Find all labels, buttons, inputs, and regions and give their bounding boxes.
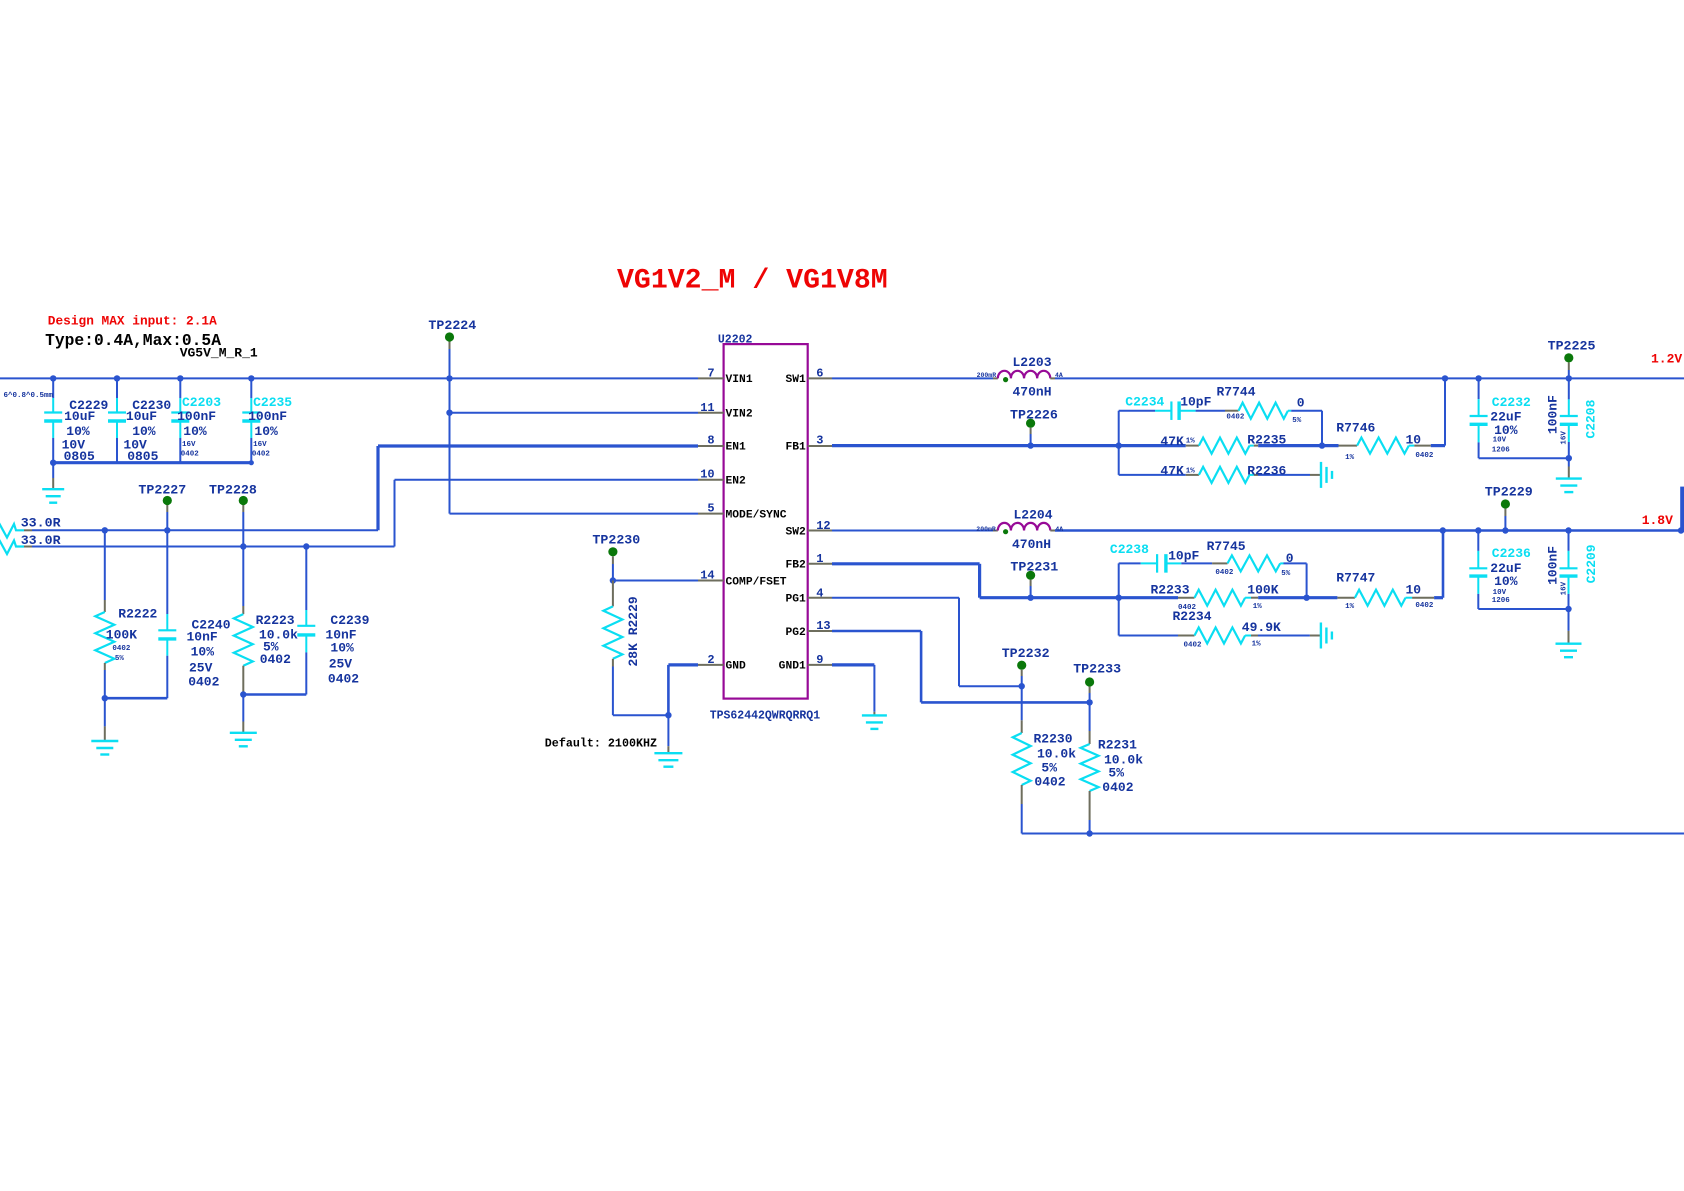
svg-text:10.0k: 10.0k	[1037, 746, 1076, 761]
svg-text:R7745: R7745	[1207, 539, 1246, 554]
svg-text:R2231: R2231	[1098, 738, 1137, 753]
svg-text:TP2229: TP2229	[1485, 485, 1533, 500]
svg-text:1%: 1%	[1186, 438, 1196, 446]
svg-text:16V: 16V	[1561, 431, 1569, 445]
svg-text:100nF: 100nF	[1546, 395, 1561, 434]
svg-text:C2232: C2232	[1492, 395, 1531, 410]
svg-text:TP2226: TP2226	[1010, 408, 1058, 423]
svg-text:TP2230: TP2230	[592, 533, 640, 548]
svg-text:5%: 5%	[1108, 766, 1124, 781]
svg-text:C2209: C2209	[1584, 544, 1599, 583]
svg-text:33.0R: 33.0R	[21, 533, 61, 548]
svg-text:10uF: 10uF	[64, 409, 95, 424]
svg-text:R2233: R2233	[1151, 583, 1190, 598]
svg-text:1%: 1%	[1345, 454, 1355, 462]
svg-text:10: 10	[1406, 583, 1422, 598]
svg-text:470nH: 470nH	[1013, 385, 1052, 400]
svg-text:VIN1: VIN1	[726, 374, 753, 386]
svg-text:FB2: FB2	[785, 560, 806, 572]
svg-text:0402: 0402	[181, 451, 200, 459]
svg-text:16V: 16V	[1561, 581, 1569, 595]
svg-text:R7747: R7747	[1336, 571, 1375, 586]
svg-text:TP2227: TP2227	[138, 483, 186, 498]
svg-text:100nF: 100nF	[1546, 546, 1561, 585]
svg-text:U2202: U2202	[718, 334, 753, 347]
svg-text:1%: 1%	[1186, 467, 1196, 475]
svg-text:100nF: 100nF	[177, 409, 216, 424]
svg-text:0402: 0402	[1184, 642, 1203, 650]
svg-text:28K R2229: 28K R2229	[626, 596, 641, 666]
svg-text:13: 13	[816, 619, 830, 633]
svg-text:0402: 0402	[252, 451, 271, 459]
svg-text:Default: 2100KHZ: Default: 2100KHZ	[545, 737, 657, 751]
svg-text:6^0.8^0.5mm: 6^0.8^0.5mm	[4, 391, 54, 400]
svg-text:47K: 47K	[1160, 464, 1184, 479]
svg-text:5%: 5%	[1281, 570, 1291, 578]
svg-text:0402: 0402	[1415, 602, 1434, 610]
svg-text:1.2V: 1.2V	[1651, 351, 1682, 366]
svg-text:C2239: C2239	[330, 613, 369, 628]
svg-text:FB1: FB1	[785, 441, 806, 453]
svg-text:5%: 5%	[1292, 417, 1302, 425]
svg-text:SW2: SW2	[785, 526, 806, 538]
svg-text:470nH: 470nH	[1012, 537, 1051, 552]
svg-text:GND1: GND1	[779, 661, 806, 673]
svg-text:4: 4	[816, 586, 823, 600]
svg-text:COMP/FSET: COMP/FSET	[726, 576, 787, 588]
svg-text:12: 12	[816, 519, 830, 533]
svg-text:10%: 10%	[1494, 574, 1518, 589]
svg-text:MODE/SYNC: MODE/SYNC	[726, 509, 787, 521]
svg-text:0: 0	[1297, 395, 1305, 410]
svg-text:TP2232: TP2232	[1002, 646, 1050, 661]
svg-text:R2236: R2236	[1247, 464, 1286, 479]
svg-text:5: 5	[707, 502, 714, 516]
svg-text:C2236: C2236	[1492, 546, 1531, 561]
svg-text:10%: 10%	[330, 641, 354, 656]
svg-text:0402: 0402	[1102, 780, 1133, 795]
svg-text:2: 2	[707, 653, 714, 667]
svg-text:16V: 16V	[182, 441, 196, 449]
svg-text:1%: 1%	[1253, 603, 1263, 611]
svg-text:C2238: C2238	[1110, 542, 1149, 557]
svg-text:VG1V2_M / VG1V8M: VG1V2_M / VG1V8M	[617, 266, 888, 297]
svg-text:R2230: R2230	[1034, 731, 1073, 746]
svg-text:200mR: 200mR	[976, 526, 996, 533]
svg-text:49.9K: 49.9K	[1242, 620, 1281, 635]
svg-text:C2234: C2234	[1125, 394, 1164, 409]
svg-text:1: 1	[816, 552, 823, 566]
svg-text:1206: 1206	[1492, 597, 1511, 605]
svg-text:10%: 10%	[66, 424, 90, 439]
svg-text:TP2233: TP2233	[1073, 662, 1121, 677]
svg-text:10%: 10%	[191, 645, 215, 660]
svg-text:10pF: 10pF	[1180, 394, 1211, 409]
svg-text:14: 14	[700, 569, 714, 583]
svg-text:L2203: L2203	[1013, 355, 1052, 370]
svg-text:11: 11	[700, 401, 714, 415]
svg-text:1206: 1206	[1492, 446, 1511, 454]
svg-text:1%: 1%	[1345, 603, 1355, 611]
svg-text:10%: 10%	[254, 424, 278, 439]
svg-text:10%: 10%	[132, 424, 156, 439]
svg-text:0402: 0402	[328, 671, 359, 686]
svg-text:R7746: R7746	[1336, 421, 1375, 436]
svg-text:100K: 100K	[1247, 583, 1278, 598]
svg-text:9: 9	[816, 653, 823, 667]
svg-text:0: 0	[1286, 551, 1294, 566]
svg-text:L2204: L2204	[1014, 508, 1053, 523]
svg-text:5%: 5%	[115, 655, 125, 663]
svg-text:0402: 0402	[1215, 569, 1234, 577]
svg-text:33.0R: 33.0R	[21, 515, 61, 530]
svg-text:TPS62442QWRQRRQ1: TPS62442QWRQRRQ1	[710, 710, 821, 723]
svg-text:SW1: SW1	[785, 374, 806, 386]
svg-text:TP2231: TP2231	[1010, 560, 1058, 575]
svg-text:R7744: R7744	[1217, 384, 1256, 399]
svg-text:10: 10	[1406, 433, 1422, 448]
svg-text:C2203: C2203	[182, 395, 221, 410]
svg-text:R2234: R2234	[1173, 609, 1212, 624]
svg-text:10V: 10V	[1493, 437, 1507, 445]
svg-text:47K: 47K	[1160, 434, 1184, 449]
svg-text:100nF: 100nF	[248, 409, 287, 424]
svg-text:TP2225: TP2225	[1548, 339, 1596, 354]
svg-text:6: 6	[816, 367, 823, 381]
svg-text:VG5V_M_R_1: VG5V_M_R_1	[180, 346, 258, 361]
svg-text:EN1: EN1	[726, 441, 747, 453]
svg-text:TP2224: TP2224	[428, 318, 476, 333]
svg-text:10nF: 10nF	[187, 630, 218, 645]
svg-text:Design MAX input: 2.1A: Design MAX input: 2.1A	[48, 314, 217, 329]
svg-text:16V: 16V	[253, 441, 267, 449]
svg-text:0805: 0805	[64, 449, 95, 464]
svg-text:10uF: 10uF	[126, 409, 157, 424]
svg-text:0402: 0402	[112, 645, 131, 653]
svg-text:25V: 25V	[189, 661, 213, 676]
svg-text:C2235: C2235	[253, 395, 292, 410]
svg-text:R2223: R2223	[256, 613, 295, 628]
svg-text:10: 10	[700, 468, 714, 482]
svg-text:1.8V: 1.8V	[1642, 513, 1673, 528]
svg-text:0402: 0402	[1226, 414, 1245, 422]
svg-text:5%: 5%	[1041, 760, 1057, 775]
svg-text:10V: 10V	[1493, 589, 1507, 597]
svg-text:1%: 1%	[1252, 640, 1262, 648]
svg-text:R2222: R2222	[118, 607, 157, 622]
svg-text:100K: 100K	[106, 627, 137, 642]
svg-text:GND: GND	[726, 661, 747, 673]
svg-text:200mR: 200mR	[977, 372, 997, 379]
svg-text:0402: 0402	[1415, 452, 1434, 460]
svg-text:0805: 0805	[127, 449, 158, 464]
svg-text:0402: 0402	[188, 675, 219, 690]
svg-text:10%: 10%	[183, 424, 207, 439]
svg-text:PG2: PG2	[785, 627, 806, 639]
svg-text:4A: 4A	[1055, 372, 1063, 379]
svg-text:3: 3	[816, 433, 823, 447]
svg-text:EN2: EN2	[726, 476, 747, 488]
svg-text:25V: 25V	[329, 656, 353, 671]
svg-text:7: 7	[707, 367, 714, 381]
svg-text:0402: 0402	[1034, 775, 1065, 790]
svg-text:R2235: R2235	[1247, 433, 1286, 448]
svg-text:0402: 0402	[260, 652, 291, 667]
svg-text:TP2228: TP2228	[209, 483, 257, 498]
svg-text:8: 8	[707, 433, 714, 447]
svg-text:PG1: PG1	[785, 594, 806, 606]
svg-text:10pF: 10pF	[1168, 549, 1199, 564]
svg-text:4A: 4A	[1055, 526, 1063, 533]
svg-text:VIN2: VIN2	[726, 409, 753, 421]
svg-text:C2208: C2208	[1584, 399, 1599, 438]
